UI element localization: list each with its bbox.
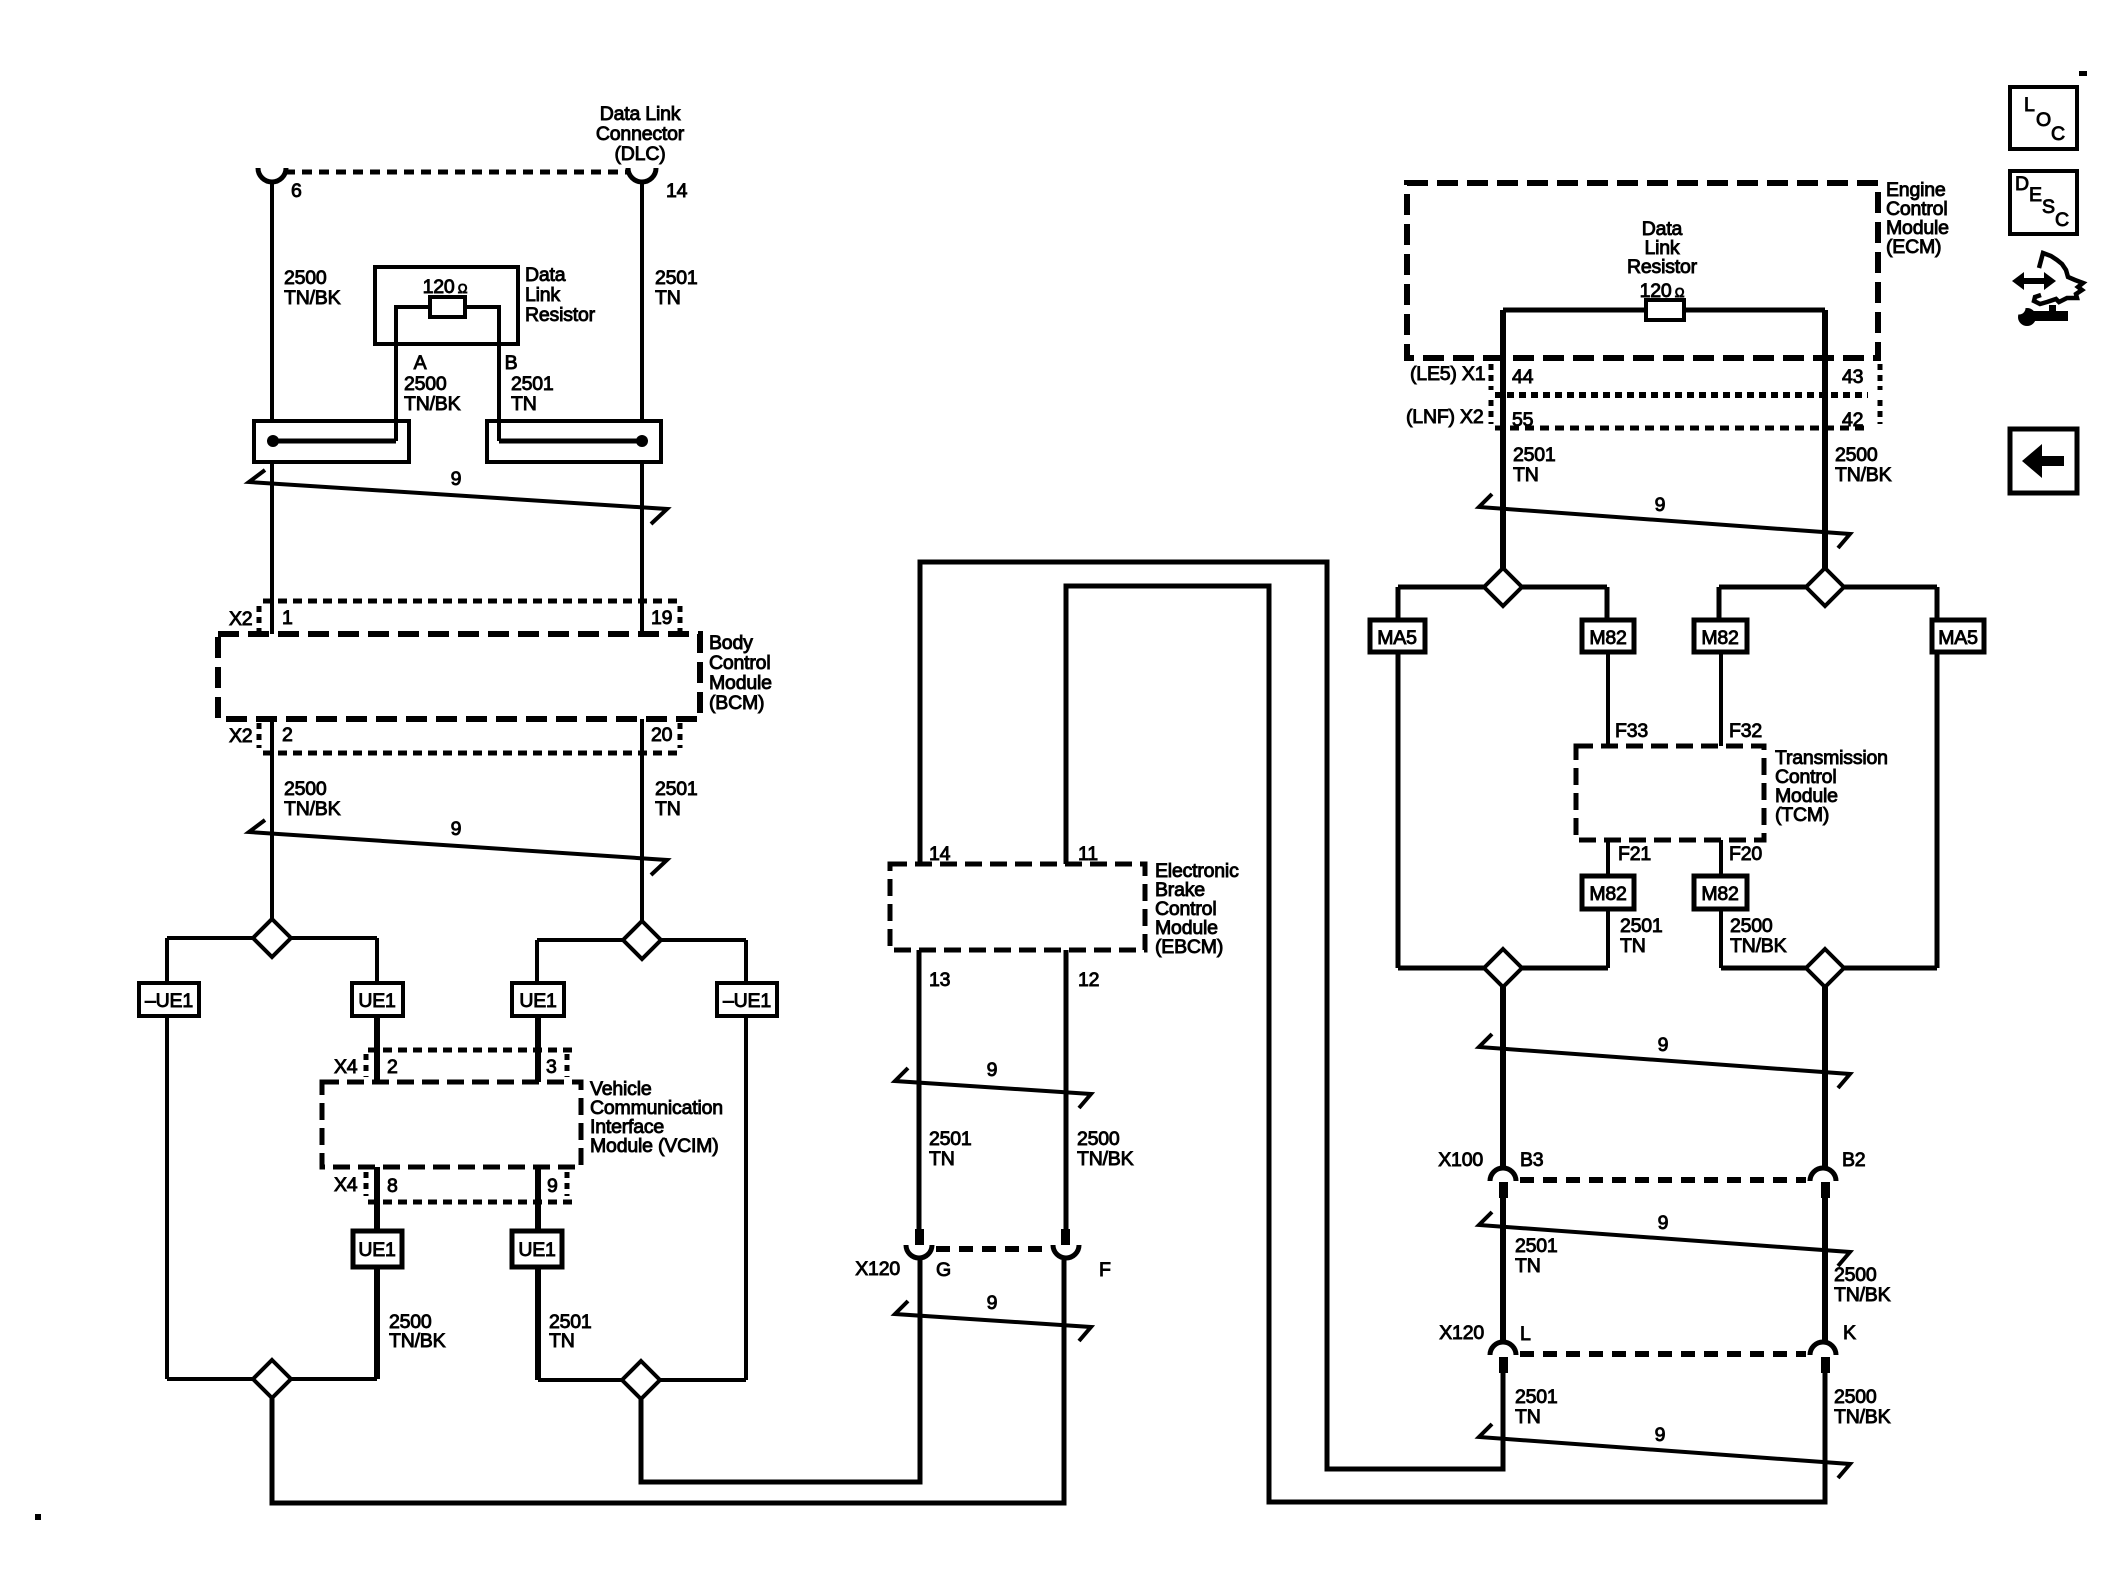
svg-text:X100: X100 — [1438, 1149, 1483, 1171]
resistor 120 ohm element (ECM) — [1646, 300, 1684, 320]
svg-text:Module: Module — [709, 672, 772, 694]
wire left outer loop down — [165, 1016, 169, 1379]
wire 2501 TN B3 down — [1500, 1198, 1506, 1342]
svg-text:X120: X120 — [855, 1258, 900, 1280]
svg-text:2: 2 — [282, 724, 293, 746]
splice diamond (2501 lower) — [1484, 949, 1522, 987]
svg-text:(EBCM): (EBCM) — [1155, 936, 1223, 958]
splice diamond (2501) — [1484, 568, 1522, 606]
svg-text:Module (VCIM): Module (VCIM) — [590, 1135, 719, 1157]
svg-text:2500: 2500 — [1834, 1386, 1877, 1408]
connector X100 pin B2 (female cup + male pin) — [1810, 1168, 1836, 1198]
svg-text:F33: F33 — [1615, 720, 1648, 742]
terminal box UE1 (pin 2) — [352, 983, 403, 1016]
svg-text:X2: X2 — [229, 608, 252, 630]
wire branch MA5/M82 left — [1398, 587, 1607, 620]
terminal box M82 (F21) — [1582, 876, 1634, 909]
wire branch left 2500 — [167, 938, 377, 983]
wire VCIM pin 8 down — [374, 1167, 380, 1231]
svg-text:M82: M82 — [1589, 883, 1626, 905]
wire M82 F33 down — [1606, 652, 1610, 746]
twisted pair symbol 9 (below X120 G-F) — [895, 1301, 1091, 1341]
svg-text:TN: TN — [1515, 1255, 1541, 1277]
svg-text:K: K — [1843, 1322, 1856, 1344]
svg-text:F: F — [1099, 1259, 1111, 1281]
icon DESC box — [2010, 171, 2077, 234]
wire 2501 TN from DLC pin 14 — [640, 182, 644, 421]
svg-text:2501: 2501 — [1515, 1235, 1558, 1257]
wire 2501 TN splice to BCM — [640, 462, 644, 634]
svg-text:Body: Body — [709, 632, 753, 654]
twisted pair symbol 9 (X100-X120) — [1479, 1212, 1850, 1266]
svg-text:MA5: MA5 — [1938, 627, 1978, 649]
connector X120 L-K dashed body — [1520, 1351, 1806, 1357]
svg-text:(LE5) X1: (LE5) X1 — [1410, 363, 1485, 385]
DLC terminal pin 6 (female cup) — [258, 168, 286, 182]
svg-text:(LNF) X2: (LNF) X2 — [1406, 406, 1484, 428]
connector X120 pin L (female cup + male pin) — [1490, 1342, 1516, 1373]
splice diamond (2501) — [623, 921, 661, 959]
connector X4 row (VCIM bottom) — [334, 1172, 578, 1202]
splice diamond (2500) — [1806, 568, 1844, 606]
svg-text:MA5: MA5 — [1377, 627, 1417, 649]
wire 2501 TN EBCM pin 13 down — [917, 950, 922, 1230]
svg-text:14: 14 — [666, 180, 688, 202]
svg-text:9: 9 — [1658, 1034, 1669, 1056]
twisted pair symbol 9 (TCM-X100) — [1479, 1034, 1850, 1088]
connector X120 pin F (male pin + female cup) — [1053, 1229, 1079, 1258]
icon harness routing (double arrow, outline, wrench) — [2012, 253, 2083, 326]
svg-text:(TCM): (TCM) — [1775, 804, 1829, 826]
connector X1 row (LE5) — [1410, 363, 1880, 395]
svg-text:Control: Control — [709, 652, 770, 674]
svg-text:X120: X120 — [1439, 1322, 1484, 1344]
wire 2500 TN/BK splice to BCM — [270, 462, 274, 634]
module BCM (Body Control Module) — [218, 634, 700, 719]
svg-text:S: S — [2042, 196, 2055, 218]
svg-text:Resistor: Resistor — [1627, 256, 1698, 278]
wire 2500 TN/BK lead down (ECM pin 43/42) — [1822, 310, 1828, 568]
svg-text:TN/BK: TN/BK — [1834, 1284, 1891, 1306]
connector X2 row (BCM bottom) — [229, 723, 680, 753]
svg-text:2501: 2501 — [1620, 915, 1663, 937]
svg-text:D: D — [2015, 173, 2029, 195]
twisted pair symbol 9 (DLC-BCM) — [249, 470, 667, 524]
svg-text:9: 9 — [547, 1175, 558, 1197]
svg-text:M82: M82 — [1701, 883, 1738, 905]
svg-text:(BCM): (BCM) — [709, 692, 764, 714]
svg-text:UE1: UE1 — [358, 990, 395, 1012]
connector X120 pin G (male pin + female cup) — [906, 1229, 932, 1258]
svg-text:9: 9 — [451, 818, 462, 840]
wire 2500 TN/BK down to X100 B2 — [1822, 987, 1828, 1168]
wire junction row right — [1721, 966, 1937, 971]
twisted pair symbol 9 (bottom) — [1479, 1424, 1850, 1478]
svg-text:TN/BK: TN/BK — [1835, 464, 1892, 486]
svg-text:TN/BK: TN/BK — [1834, 1406, 1891, 1428]
terminal box M82 (F33) — [1582, 620, 1634, 652]
svg-text:TN: TN — [1515, 1406, 1541, 1428]
svg-text:Data Link: Data Link — [600, 103, 681, 125]
svg-text:2: 2 — [387, 1056, 398, 1078]
splice S1 (2500 TN/BK) — [254, 421, 409, 462]
svg-text:L: L — [2024, 94, 2035, 116]
svg-text:UE1: UE1 — [358, 1239, 395, 1261]
wire MA5 left down — [1396, 652, 1401, 968]
terminal box UE1 (pin 3) — [512, 983, 564, 1016]
svg-text:TN: TN — [655, 287, 681, 309]
svg-text:TN/BK: TN/BK — [389, 1330, 446, 1352]
wire 2501 TN bus to X120-G — [641, 1260, 920, 1482]
splice diamond (2501 bottom) — [622, 1361, 660, 1399]
svg-text:2500: 2500 — [284, 267, 327, 289]
svg-text:M82: M82 — [1701, 627, 1738, 649]
svg-text:Link: Link — [525, 284, 560, 306]
wire 2501 TN lead down (ECM pin 44/55) — [1500, 310, 1506, 568]
splice diamond (2500 bottom) — [253, 1360, 291, 1398]
svg-text:X4: X4 — [334, 1056, 358, 1078]
svg-text:TN/BK: TN/BK — [1730, 935, 1787, 957]
svg-text:9: 9 — [987, 1292, 998, 1314]
svg-text:TN: TN — [549, 1330, 575, 1352]
svg-text:2500: 2500 — [284, 778, 327, 800]
terminal box M82 (F20) — [1694, 876, 1747, 909]
terminal box -UE1 (right) — [717, 983, 777, 1016]
twisted pair symbol 9 (BCM-VCIM) — [249, 820, 667, 875]
svg-text:F20: F20 — [1729, 843, 1762, 865]
svg-text:C: C — [2055, 209, 2069, 231]
svg-text:TN: TN — [511, 393, 537, 415]
wire 2501 TN down to X100 B3 — [1500, 987, 1506, 1168]
terminal box UE1 (pin 9) — [512, 1231, 562, 1267]
svg-text:2501: 2501 — [655, 778, 698, 800]
wire MA5 right down — [1935, 652, 1940, 968]
svg-text:M82: M82 — [1589, 627, 1626, 649]
splice diamond (2500 lower) — [1806, 949, 1844, 987]
wire bottom junction left — [167, 1377, 377, 1381]
svg-text:2500: 2500 — [1834, 1264, 1877, 1286]
wire 2500 TN/BK EBCM pin 12 down — [1064, 950, 1069, 1230]
svg-text:TN/BK: TN/BK — [284, 798, 341, 820]
icon back arrow box — [2010, 429, 2077, 493]
svg-text:TN/BK: TN/BK — [404, 393, 461, 415]
resistor internal wire (ECM) — [1503, 308, 1825, 313]
svg-text:2501: 2501 — [929, 1128, 972, 1150]
icon LOC box — [2010, 87, 2077, 149]
splice diamond (2500) — [253, 919, 291, 957]
wire branch M82/MA5 right — [1719, 587, 1937, 620]
svg-text:9: 9 — [1655, 494, 1666, 516]
svg-text:F32: F32 — [1729, 720, 1762, 742]
resistor 120 ohm element — [430, 297, 465, 317]
svg-text:9: 9 — [451, 468, 462, 490]
wire 2500 TN/BK from DLC pin 6 — [270, 182, 274, 421]
svg-text:3: 3 — [546, 1056, 557, 1078]
svg-text:TN: TN — [929, 1148, 955, 1170]
terminal box -UE1 (left) — [139, 983, 199, 1016]
svg-text:TN/BK: TN/BK — [1077, 1148, 1134, 1170]
connector X2 row (BCM top) — [229, 601, 680, 631]
wire 2501 TN BCM pin 20 down — [640, 719, 644, 921]
svg-text:2500: 2500 — [1835, 444, 1878, 466]
terminal box UE1 (pin 8) — [353, 1231, 402, 1267]
twisted pair symbol 9 (EBCM) — [895, 1068, 1091, 1108]
svg-text:TN/BK: TN/BK — [284, 287, 341, 309]
connector X120 pin K (female cup + male pin) — [1810, 1342, 1836, 1373]
svg-text:–UE1: –UE1 — [145, 990, 193, 1012]
svg-text:L: L — [1520, 1323, 1531, 1345]
terminal box MA5 (left) — [1370, 620, 1425, 652]
svg-text:13: 13 — [929, 969, 950, 991]
connector X100 B3-B2 dashed body — [1520, 1177, 1806, 1183]
svg-text:Resistor: Resistor — [525, 304, 596, 326]
svg-text:B: B — [505, 352, 518, 374]
wire 2500 TN/BK below M82 — [1719, 909, 1723, 968]
svg-text:O: O — [2036, 109, 2051, 131]
svg-text:TN: TN — [1620, 935, 1646, 957]
svg-text:19: 19 — [651, 607, 672, 629]
wire UE1 pin3 to VCIM — [535, 1016, 541, 1082]
wire 2500 TN/BK BCM pin 2 down — [270, 719, 274, 919]
wire 2500 TN/BK B2 down — [1822, 1198, 1828, 1342]
DLC terminal pin 14 (female cup) — [628, 168, 656, 182]
wire 2501 TN loop EBCM pin 14 to X120-L — [920, 562, 1503, 1469]
svg-text:(DLC): (DLC) — [615, 143, 666, 165]
wire M82 F32 down — [1719, 652, 1723, 746]
module ECM (Engine Control Module) — [1407, 183, 1878, 358]
wire VCIM pin 9 down — [535, 1167, 541, 1231]
wire 2501 TN below M82 — [1606, 909, 1610, 968]
svg-text:2501: 2501 — [1515, 1386, 1558, 1408]
wire right outer loop down — [744, 1016, 748, 1380]
module TCM (Transmission Control Module) — [1576, 746, 1764, 840]
svg-text:–UE1: –UE1 — [723, 990, 771, 1012]
svg-text:UE1: UE1 — [518, 1239, 555, 1261]
tick mark top right — [2079, 71, 2087, 76]
svg-text:UE1: UE1 — [519, 990, 556, 1012]
svg-text:6: 6 — [291, 180, 302, 202]
svg-text:G: G — [936, 1259, 951, 1281]
wire TCM F20 down — [1719, 840, 1723, 876]
svg-text:9: 9 — [1658, 1212, 1669, 1234]
resistor internal wire — [396, 307, 499, 441]
speck bottom left — [35, 1514, 41, 1520]
svg-text:X2: X2 — [229, 725, 252, 747]
svg-text:8: 8 — [387, 1175, 398, 1197]
svg-text:C: C — [2051, 123, 2065, 145]
wire 2500 TN/BK loop EBCM pin 11 to X120-K — [1066, 586, 1825, 1502]
svg-text:9: 9 — [1655, 1424, 1666, 1446]
svg-text:E: E — [2029, 184, 2042, 206]
wire UE1 pin2 to VCIM — [374, 1016, 380, 1082]
svg-text:2501: 2501 — [655, 267, 698, 289]
svg-text:TN: TN — [1513, 464, 1539, 486]
splice S2 (2501 TN) — [487, 421, 661, 462]
svg-text:44: 44 — [1512, 366, 1534, 388]
connector X100 pin B3 (female cup + male pin) — [1490, 1168, 1516, 1198]
svg-text:TN: TN — [655, 798, 681, 820]
svg-text:2501: 2501 — [1513, 444, 1556, 466]
svg-text:B2: B2 — [1842, 1149, 1865, 1171]
connector X120 G-F dashed body — [936, 1246, 1049, 1252]
connector DLC (Data Link Connector) dashed body — [258, 103, 688, 202]
svg-text:(ECM): (ECM) — [1886, 236, 1941, 258]
connector X4 row (VCIM top) — [334, 1050, 578, 1078]
svg-text:2500: 2500 — [1730, 915, 1773, 937]
wire bottom junction right — [538, 1378, 746, 1382]
svg-text:12: 12 — [1078, 969, 1099, 991]
svg-text:43: 43 — [1842, 366, 1863, 388]
twisted pair symbol 9 (ECM) — [1479, 494, 1850, 548]
svg-text:X4: X4 — [334, 1174, 358, 1196]
svg-text:1: 1 — [282, 607, 293, 629]
wire junction row left — [1398, 966, 1608, 971]
terminal box M82 (F32) — [1694, 620, 1747, 652]
svg-text:2500: 2500 — [404, 373, 447, 395]
svg-text:Data: Data — [525, 264, 566, 286]
svg-text:F21: F21 — [1618, 843, 1651, 865]
svg-text:9: 9 — [987, 1059, 998, 1081]
resistor: Data Link Resistor outer case — [375, 267, 518, 344]
wire 2501 TN below UE1 — [535, 1267, 541, 1380]
wire 2500 TN/BK bus to X120-F — [272, 1260, 1064, 1503]
connector X2 row (LNF) — [1406, 400, 1880, 431]
svg-text:B3: B3 — [1520, 1149, 1543, 1171]
svg-text:2501: 2501 — [511, 373, 554, 395]
svg-text:2500: 2500 — [1077, 1128, 1120, 1150]
wire TCM F21 down — [1606, 840, 1610, 876]
svg-text:20: 20 — [651, 724, 673, 746]
module VCIM (Vehicle Communication Interface Module) — [322, 1082, 581, 1167]
wire branch right 2501 — [537, 940, 746, 983]
terminal box MA5 (right) — [1932, 620, 1984, 652]
svg-text:A: A — [414, 352, 427, 374]
wire 2500 TN/BK below UE1 — [374, 1267, 380, 1379]
svg-text:Connector: Connector — [596, 123, 685, 145]
module EBCM (Electronic Brake Control Module) — [890, 864, 1145, 950]
